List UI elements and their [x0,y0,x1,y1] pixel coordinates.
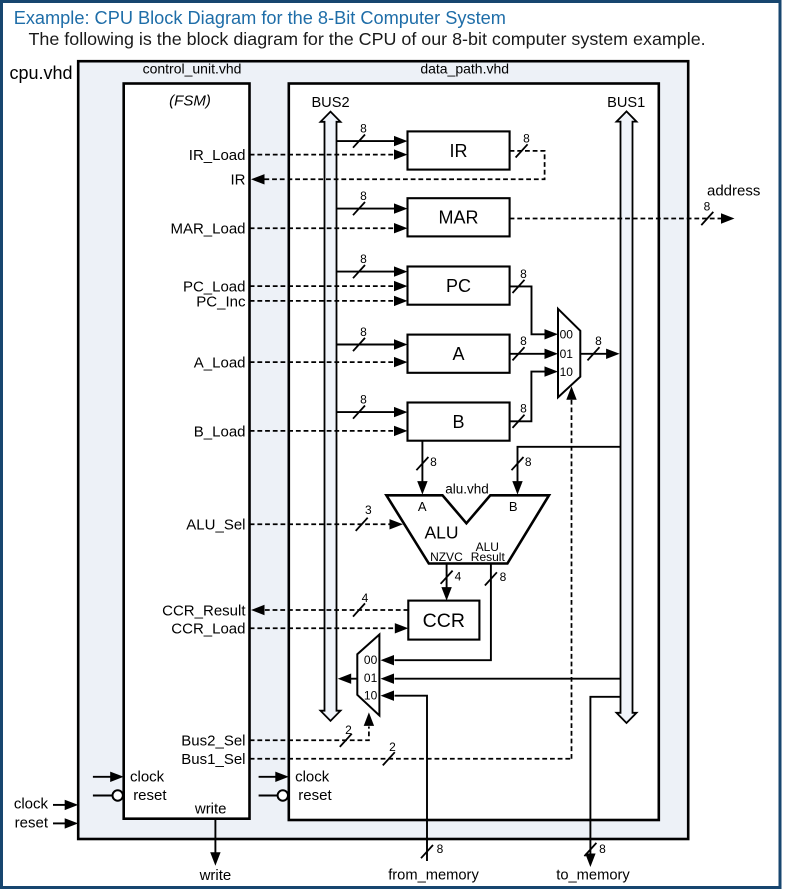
svg-text:alu.vhd: alu.vhd [445,482,489,497]
svg-text:clock: clock [295,769,330,786]
svg-text:CCR_Result: CCR_Result [162,602,246,619]
svg-text:8: 8 [437,842,444,856]
svg-text:A_Load: A_Load [194,355,246,372]
svg-text:8: 8 [360,252,367,266]
svg-text:8: 8 [520,267,527,281]
svg-text:8: 8 [523,131,530,145]
svg-text:cpu.vhd: cpu.vhd [9,63,72,83]
svg-text:Bus2_Sel: Bus2_Sel [181,733,245,750]
svg-text:CCR: CCR [423,610,465,632]
svg-text:MAR_Load: MAR_Load [170,221,245,238]
svg-text:to_memory: to_memory [556,868,630,884]
svg-text:8: 8 [520,402,527,416]
svg-text:clock: clock [130,769,165,786]
svg-text:8: 8 [360,393,367,407]
svg-text:reset: reset [133,787,167,804]
svg-text:8: 8 [704,200,711,214]
svg-text:ALU: ALU [424,523,458,543]
svg-text:write: write [199,867,232,884]
svg-text:2: 2 [345,723,352,737]
svg-text:8: 8 [525,455,532,469]
svg-text:4: 4 [362,591,369,605]
svg-text:01: 01 [560,347,574,361]
svg-text:8: 8 [360,325,367,339]
svg-text:8: 8 [520,334,527,348]
svg-text:B_Load: B_Load [194,423,246,440]
svg-text:clock: clock [14,796,49,813]
svg-text:ALU_Sel: ALU_Sel [186,517,245,534]
svg-text:B: B [509,499,518,514]
svg-text:B: B [453,412,465,432]
svg-text:8: 8 [500,570,507,584]
svg-text:IR: IR [231,172,246,189]
svg-text:IR: IR [450,141,468,161]
svg-text:8: 8 [360,122,367,136]
svg-text:IR_Load: IR_Load [189,147,246,164]
svg-text:BUS1: BUS1 [607,95,645,111]
svg-text:Bus1_Sel: Bus1_Sel [181,751,245,768]
svg-text:8: 8 [360,189,367,203]
svg-text:Example: CPU Block Diagram for: Example: CPU Block Diagram for the 8-Bit… [14,8,506,28]
svg-text:00: 00 [560,328,574,342]
svg-text:3: 3 [365,503,372,517]
svg-text:8: 8 [430,455,437,469]
svg-text:BUS2: BUS2 [311,95,349,111]
svg-text:from_memory: from_memory [388,868,479,884]
svg-text:control_unit.vhd: control_unit.vhd [143,61,242,77]
svg-text:10: 10 [560,365,574,379]
svg-text:The following is the block dia: The following is the block diagram for t… [29,29,706,49]
svg-text:write: write [194,801,227,818]
svg-text:data_path.vhd: data_path.vhd [420,61,509,77]
svg-text:(FSM): (FSM) [169,93,211,110]
svg-text:A: A [418,499,427,514]
svg-text:2: 2 [389,740,396,754]
svg-text:MAR: MAR [439,208,479,228]
svg-text:Result: Result [471,550,506,564]
svg-text:address: address [707,182,760,199]
svg-text:CCR_Load: CCR_Load [171,621,245,638]
svg-text:4: 4 [455,569,462,583]
svg-text:A: A [453,344,465,364]
svg-text:reset: reset [298,787,332,804]
svg-text:NZVC: NZVC [430,550,463,564]
svg-text:01: 01 [364,671,378,685]
svg-text:PC_Inc: PC_Inc [196,293,246,310]
svg-text:00: 00 [364,653,378,667]
svg-text:PC: PC [446,276,471,296]
svg-text:8: 8 [595,334,602,348]
svg-text:reset: reset [15,815,49,832]
svg-text:8: 8 [599,842,606,856]
svg-text:10: 10 [364,688,378,702]
